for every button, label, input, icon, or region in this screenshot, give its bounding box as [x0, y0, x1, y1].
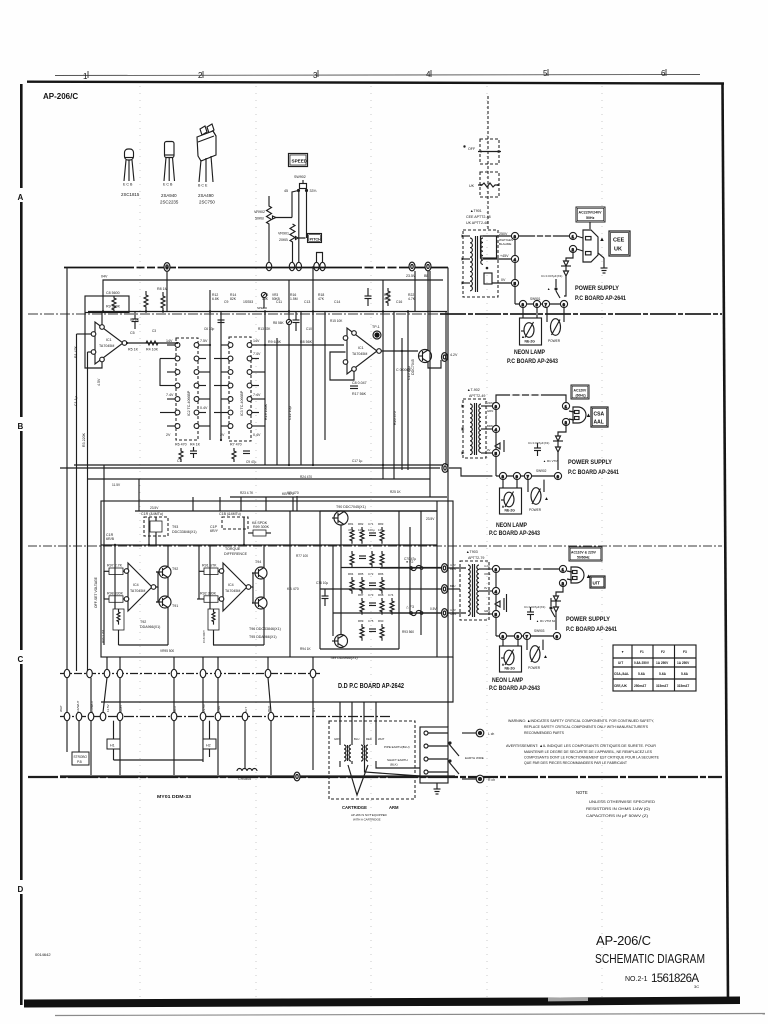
- scattered small value labels: [112, 297, 547, 653]
- connector row 1 line: [60, 673, 320, 675]
- svg-text:R8 56K: R8 56K: [300, 340, 313, 344]
- svg-text:VR901: VR901: [278, 232, 289, 236]
- svg-text:T92: T92: [140, 620, 146, 624]
- svg-text:C18 6R/Y: C18 6R/Y: [202, 630, 206, 643]
- svg-text:CARTRIDGE: CARTRIDGE: [342, 805, 367, 810]
- resistor column block bottom: [360, 624, 384, 641]
- grid row divider B-C: [28, 545, 722, 547]
- svg-text:IC1: IC1: [358, 346, 364, 350]
- svg-text:5: 5: [495, 452, 497, 456]
- grid column dashed line 5-6: [601, 86, 603, 998]
- svg-text:R7 470: R7 470: [230, 443, 242, 447]
- svg-text:04V: 04V: [101, 275, 108, 279]
- svg-text:POWER: POWER: [529, 508, 542, 512]
- PS1 pin 3: [511, 232, 518, 239]
- avertissement text block: [506, 743, 659, 765]
- svg-text:7.4V: 7.4V: [253, 393, 261, 397]
- svg-text:UK: UK: [614, 247, 622, 253]
- resistor column block lower2: [360, 598, 394, 615]
- svg-text:R15 10K: R15 10K: [330, 319, 343, 323]
- svg-text:C8 0.047: C8 0.047: [352, 381, 367, 385]
- svg-text:SPEED: SPEED: [292, 159, 308, 164]
- svg-text:9: 9: [536, 303, 538, 307]
- svg-text:REPLACE SAFETY CRITICAL COMPON: REPLACE SAFETY CRITICAL COMPONENTS ONLY …: [524, 724, 648, 729]
- offset network box L: [113, 609, 124, 630]
- PS3 switch sym: [550, 598, 555, 617]
- upper board lower rail 1: [74, 464, 447, 466]
- svg-text:1SS53: 1SS53: [243, 300, 253, 304]
- svg-text:R1 VTM 62: R1 VTM 62: [540, 619, 556, 623]
- svg-text:7: 7: [527, 475, 529, 479]
- wire IC1 feedback top: [101, 313, 103, 325]
- svg-text:B: B: [18, 422, 24, 431]
- svg-text:10K: 10K: [358, 528, 363, 532]
- svg-text:100µ: 100µ: [368, 528, 375, 532]
- motor bus: [60, 775, 455, 777]
- svg-text:CSA,/AAL: CSA,/AAL: [614, 672, 629, 676]
- svg-text:RED: RED: [366, 737, 372, 741]
- wire left drop 3: [87, 352, 89, 671]
- svg-text:C3: C3: [152, 329, 156, 333]
- transistor T90 top: [332, 511, 348, 525]
- input resistor R2b: [197, 596, 219, 603]
- svg-text:1: 1: [572, 235, 574, 239]
- PS3 pin 9: [514, 632, 521, 639]
- svg-text:(BLK): (BLK): [390, 763, 398, 767]
- svg-text:R24 470: R24 470: [300, 475, 312, 479]
- wire IC1 feedback bottom: [85, 313, 102, 368]
- grid column dashed line 4-5: [486, 86, 488, 998]
- svg-text:0.4V: 0.4V: [200, 406, 208, 410]
- PS1 pin 2: [569, 245, 576, 252]
- resistor column block top: [350, 527, 384, 544]
- svg-text:CSA: CSA: [594, 412, 605, 418]
- PS2 bottom pin rail: [495, 457, 497, 476]
- svg-text:AP-206 IS NOT EQUIPPED: AP-206 IS NOT EQUIPPED: [351, 813, 387, 817]
- PS3 pin 5: [492, 610, 499, 617]
- svg-text:D: D: [18, 885, 24, 894]
- op-amp IC1: [91, 322, 127, 364]
- svg-text:WARNING: ▲INDICATES SAFETY CRI: WARNING: ▲INDICATES SAFETY CRITICAL COMP…: [508, 718, 654, 723]
- svg-text:NO.2-1: NO.2-1: [625, 976, 648, 983]
- PS2 pin 9: [513, 472, 520, 479]
- transistor T95: [252, 597, 267, 609]
- input resistor R2a: [199, 568, 219, 575]
- neon lamp unit 1: [520, 308, 542, 345]
- svg-text:NE-2G: NE-2G: [505, 667, 516, 671]
- svg-text:R2 1K: R2 1K: [130, 318, 140, 322]
- wire VR902 wiper to switch: [292, 191, 299, 218]
- PS2 pin 7: [524, 472, 531, 479]
- PS1 pin 8: [519, 300, 526, 307]
- PS2 pin 3: [492, 402, 499, 409]
- PS2 pin 1: [562, 402, 569, 409]
- upper board mid bus: [88, 311, 447, 313]
- svg-text:▲: ▲: [547, 287, 550, 291]
- SPEED switch label box: [289, 154, 308, 167]
- svg-text:R99 300K: R99 300K: [253, 525, 270, 529]
- transformer T902: [462, 399, 493, 458]
- svg-text:6: 6: [556, 635, 558, 639]
- svg-text:3C: 3C: [694, 984, 699, 989]
- wire left edge drop: [66, 267, 68, 671]
- PS3 pin 2: [559, 579, 566, 586]
- PS1 pin 9: [533, 300, 540, 307]
- svg-text:P.C BOARD AP-2641: P.C BOARD AP-2641: [575, 296, 627, 302]
- connector row1 pins: [64, 669, 316, 677]
- svg-text:250V: 250V: [499, 232, 508, 236]
- svg-text:4.5V: 4.5V: [97, 378, 101, 386]
- svg-text:2V: 2V: [220, 433, 225, 437]
- PS1 pin 7: [542, 300, 549, 307]
- sample-hold dashed box L: [144, 517, 168, 536]
- svg-text:R9 390K: R9 390K: [106, 305, 121, 309]
- PS3 pin 3: [492, 565, 499, 572]
- svg-text:(60Hz): (60Hz): [576, 394, 586, 398]
- svg-text:7.4V: 7.4V: [253, 352, 261, 356]
- svg-text:P.C BOARD AP-2641: P.C BOARD AP-2641: [568, 470, 620, 476]
- svg-text:DDC33846(X1): DDC33846(X1): [172, 530, 197, 534]
- speed selector switch: [298, 180, 308, 192]
- svg-text:3: 3: [313, 71, 318, 80]
- svg-text:C71: C71: [368, 522, 374, 526]
- svg-text:TP-1: TP-1: [372, 325, 380, 329]
- border frame bottom bar: [24, 997, 740, 1008]
- svg-text:R3 220K: R3 220K: [82, 432, 86, 447]
- svg-text:R94 1K: R94 1K: [300, 647, 312, 651]
- svg-text:5: 5: [543, 69, 548, 78]
- svg-text:5: 5: [514, 282, 516, 286]
- transistor T94: [252, 567, 267, 579]
- wire pin3 to pin1: [519, 235, 569, 237]
- svg-text:T93: T93: [172, 525, 178, 529]
- PS1 pin 1: [569, 232, 576, 239]
- svg-text:20KB: 20KB: [279, 238, 288, 242]
- svg-text:C9 47µ: C9 47µ: [246, 460, 257, 464]
- svg-text:82K: 82K: [230, 297, 237, 301]
- DD edge pin b: [442, 585, 448, 594]
- svg-text:▲T901: ▲T901: [470, 209, 482, 213]
- svg-text:9: 9: [516, 475, 518, 479]
- svg-text:KB 470: KB 470: [287, 587, 299, 591]
- svg-text:APTT2-79: APTT2-79: [468, 556, 484, 560]
- svg-text:47K: 47K: [318, 297, 325, 301]
- svg-text:C13: C13: [304, 300, 310, 304]
- svg-text:KB 470: KB 470: [287, 491, 299, 495]
- connector row2 pins: [64, 712, 274, 720]
- svg-text:R25 1K: R25 1K: [390, 490, 402, 494]
- svg-text:C70 47µ: C70 47µ: [404, 557, 416, 561]
- svg-text:P.C BOARD AP-2643: P.C BOARD AP-2643: [489, 686, 541, 692]
- svg-text:CEE APTT2-48: CEE APTT2-48: [466, 215, 491, 219]
- PS2 diode network: [553, 426, 566, 470]
- svg-text:C1 0.047µF(X1): C1 0.047µF(X1): [541, 274, 562, 278]
- transistor package 2SA490/2SC750: [197, 124, 216, 182]
- svg-text:1: 1: [562, 568, 564, 572]
- svg-text:IC1: IC1: [106, 338, 112, 342]
- cartridge wire labels: [334, 737, 385, 741]
- wire input2 to IC1: [88, 351, 92, 353]
- svg-text:6.8K: 6.8K: [212, 297, 220, 301]
- svg-text:50/60Hz: 50/60Hz: [577, 556, 590, 560]
- svg-text:6: 6: [563, 303, 565, 307]
- PS2 pin 5: [492, 449, 499, 456]
- fuse table: [613, 645, 696, 691]
- svg-text:0.5V: 0.5V: [430, 607, 437, 611]
- svg-text:AAL: AAL: [594, 420, 604, 426]
- svg-text:POWER SUPPLY: POWER SUPPLY: [568, 459, 613, 466]
- AC220V/240V label box: [576, 207, 605, 222]
- op-amp IC4 R: [219, 563, 251, 611]
- trimmer VR3 speed: [261, 292, 266, 308]
- PS1 diode network: [561, 253, 573, 296]
- svg-text:E C B: E C B: [123, 183, 133, 187]
- svg-text:2SA940: 2SA940: [161, 193, 177, 198]
- svg-text:23.5V: 23.5V: [426, 517, 435, 521]
- junction dots DD bus: [114, 544, 116, 546]
- svg-text:BLU: BLU: [354, 737, 359, 741]
- trimmer R8: [286, 319, 291, 324]
- transformer T901: [462, 230, 512, 297]
- svg-text:C6 33p: C6 33p: [204, 327, 215, 331]
- PS1 pin 6: [560, 300, 567, 307]
- svg-text:R93 560: R93 560: [402, 630, 414, 634]
- bus junction pin 1: [164, 263, 170, 272]
- border frame top tick line: [55, 75, 700, 76]
- resistor column block mid: [350, 551, 384, 568]
- svg-text:ARM: ARM: [389, 805, 399, 810]
- cartridge dashed box: [329, 721, 415, 799]
- wires opamp L to transistors: [156, 545, 168, 645]
- bus dash gaps: [134, 266, 178, 269]
- voltage selector box UK: [478, 172, 499, 197]
- svg-text:C72: C72: [368, 572, 374, 576]
- svg-text:CEE,/UK: CEE,/UK: [614, 684, 628, 688]
- svg-text:IC2 TC-4066BP: IC2 TC-4066BP: [187, 390, 191, 416]
- DD edge pin c: [442, 609, 448, 618]
- PS3 pin 7: [523, 632, 530, 639]
- svg-text:C17 1µ: C17 1µ: [352, 459, 363, 463]
- arm terminals: [424, 731, 448, 774]
- svg-text:MAINTENIR LE DEGRE DE SECURITE: MAINTENIR LE DEGRE DE SECURITE DE L'APPA…: [524, 749, 652, 754]
- DD board outline: [101, 501, 453, 657]
- L ch pin: [462, 729, 484, 737]
- wire pin to PS2 rail: [449, 468, 492, 476]
- resistor ladder x146: [144, 291, 148, 312]
- transistor T92 L: [156, 566, 171, 578]
- left verticals DD: [104, 517, 168, 645]
- wire box to plug: [589, 222, 591, 229]
- svg-text:2SC1815: 2SC1815: [121, 192, 140, 197]
- wire TR1 emitter to pin: [428, 360, 441, 368]
- svg-text:WHT: WHT: [59, 705, 63, 712]
- svg-text:PIPE EARTH(BLU): PIPE EARTH(BLU): [384, 745, 410, 749]
- svg-text:33⅓: 33⅓: [310, 189, 317, 193]
- svg-text:P.C BOARD AP-2643: P.C BOARD AP-2643: [507, 359, 559, 365]
- svg-text:R77 100: R77 100: [296, 554, 308, 558]
- wires row2 down: [67, 721, 271, 775]
- svg-text:SCHEMATIC DIAGRAM: SCHEMATIC DIAGRAM: [595, 952, 705, 966]
- svg-text:TORQUE: TORQUE: [225, 547, 241, 551]
- svg-text:1A 250V: 1A 250V: [656, 661, 669, 665]
- svg-text:EARTH WIRE: EARTH WIRE: [465, 756, 484, 760]
- svg-text:4.2V: 4.2V: [450, 353, 458, 357]
- right column verticals: [383, 271, 446, 497]
- svg-text:SW902: SW902: [294, 175, 306, 179]
- svg-text:5-6A: 5-6A: [681, 672, 689, 676]
- IC2 dashed box: [175, 338, 199, 440]
- svg-text:+45V: +45V: [500, 254, 509, 258]
- svg-text:2SC2235: 2SC2235: [160, 200, 179, 205]
- op-amp IC2b right: [343, 328, 381, 374]
- DD board inner top rail: [135, 510, 437, 512]
- wire switch 33 contact down to pitch wiper: [306, 191, 308, 239]
- svg-text:STROBO: STROBO: [74, 755, 88, 759]
- transistor package 2SC1815: [124, 149, 134, 181]
- svg-text:45: 45: [284, 189, 288, 193]
- upper board lower rail 2: [88, 478, 430, 480]
- power switch SW2: [528, 480, 544, 505]
- PS1 bottom pin rail: [515, 303, 564, 305]
- PS3 pin 8: [499, 632, 506, 639]
- svg-text:RECOMMENDED PARTS: RECOMMENDED PARTS: [524, 730, 564, 735]
- svg-text:6R/Y: 6R/Y: [210, 529, 219, 533]
- input resistor R98: [104, 596, 124, 603]
- svg-text:R84: R84: [348, 572, 354, 576]
- svg-text:14V: 14V: [166, 339, 173, 343]
- svg-text:U/T: U/T: [618, 661, 623, 665]
- svg-text:NEON LAMP: NEON LAMP: [492, 677, 523, 684]
- hall element H2: [203, 739, 216, 757]
- PS1 pin bus vertical: [514, 240, 516, 304]
- mains plug CEE: [577, 230, 598, 262]
- wire bus junction drop: [166, 271, 168, 311]
- connector row 2 line: [60, 716, 390, 718]
- DD edge pin a: [442, 564, 448, 573]
- PS3 diode network: [551, 587, 563, 630]
- bottom thin line: [55, 1014, 765, 1016]
- svg-text:11.5V: 11.5V: [112, 483, 121, 487]
- svg-text:P.C BOARD AP-2643: P.C BOARD AP-2643: [489, 531, 541, 537]
- tiny labels top block: [348, 522, 384, 532]
- strobo box: [72, 752, 89, 765]
- svg-text:POWER: POWER: [548, 339, 561, 343]
- svg-text:2: 2: [562, 582, 564, 586]
- border frame right line: [723, 83, 729, 1001]
- DD output verticals: [290, 501, 437, 657]
- motor bus pin: [294, 772, 300, 781]
- wires opamp R to transistors: [213, 545, 264, 645]
- svg-text:TA7045M: TA7045M: [225, 589, 240, 593]
- svg-text:AC120V: AC120V: [574, 389, 588, 393]
- wire TR1 collector up: [427, 271, 429, 350]
- power switch SW901: [547, 308, 564, 336]
- svg-text:7: 7: [526, 635, 528, 639]
- svg-text:C: C: [18, 655, 24, 664]
- svg-text:GRN: GRN: [334, 737, 340, 741]
- border frame top line: [27, 82, 724, 84]
- svg-text:▲T-902: ▲T-902: [467, 388, 480, 392]
- svg-text:2SC750: 2SC750: [199, 200, 215, 205]
- svg-text:SW901: SW901: [530, 297, 541, 301]
- PS2 pin bus vertical: [495, 410, 497, 453]
- svg-text:T94: T94: [255, 560, 261, 564]
- svg-text:DDA966(X1): DDA966(X1): [140, 625, 160, 629]
- svg-text:2: 2: [198, 71, 203, 80]
- svg-text:R85: R85: [358, 572, 364, 576]
- bus pin 24: [425, 262, 431, 271]
- bus pin sw45: [296, 262, 301, 270]
- svg-text:DDC7045: DDC7045: [411, 359, 415, 375]
- svg-text:11.5V: 11.5V: [106, 704, 110, 712]
- DD board right edge extension: [101, 657, 453, 702]
- svg-text:C16: C16: [396, 300, 402, 304]
- svg-text:NE-2G: NE-2G: [525, 340, 536, 344]
- svg-text:NEON LAMP: NEON LAMP: [514, 349, 545, 356]
- bottom bar light gap: [548, 997, 588, 1001]
- hall element H1: [107, 739, 203, 760]
- PITCH label box: [308, 234, 322, 243]
- svg-text:R ch: R ch: [488, 778, 495, 782]
- svg-text:2: 2: [572, 248, 574, 252]
- mains plug UT: [567, 567, 584, 583]
- svg-text:▲: ▲: [544, 496, 549, 502]
- mains plug CSA: [569, 407, 586, 423]
- svg-text:T95 DDA966(X1): T95 DDA966(X1): [249, 635, 277, 639]
- earth switch slashes: [449, 742, 459, 774]
- grid letter B: [20, 417, 24, 431]
- svg-text:OFF: OFF: [468, 147, 476, 151]
- svg-text:IC4: IC4: [228, 583, 234, 587]
- svg-text:CAPACITORS IN µF 50WV (Z): CAPACITORS IN µF 50WV (Z): [586, 814, 649, 818]
- transistor package 2SA940/2SC2235: [164, 142, 175, 182]
- wire input to IC1: [77, 333, 92, 335]
- svg-text:RESISTORS IN OHMS 1/4W (Ω): RESISTORS IN OHMS 1/4W (Ω): [586, 807, 651, 811]
- svg-text:▲: ▲: [543, 654, 548, 660]
- PS2 pin 4: [492, 425, 499, 432]
- svg-text:R90: R90: [378, 619, 384, 623]
- svg-text:E C B: E C B: [163, 183, 173, 187]
- cartridge wires top: [340, 702, 376, 745]
- svg-text:R4 10K: R4 10K: [146, 348, 159, 352]
- cartridge coils: [344, 745, 368, 761]
- svg-text:50KB: 50KB: [255, 217, 264, 221]
- svg-text:C74: C74: [388, 593, 394, 597]
- svg-text:F2: F2: [661, 650, 665, 654]
- grid letter D: [20, 880, 24, 894]
- svg-text:▲T903: ▲T903: [466, 550, 478, 554]
- wires row1 to row2: [67, 678, 313, 770]
- PS2 pin 8: [499, 472, 506, 479]
- stylus: [348, 765, 368, 795]
- svg-text:WITH A CARTRIDGE: WITH A CARTRIDGE: [353, 818, 381, 822]
- svg-text:P.C BOARD AP-2641: P.C BOARD AP-2641: [566, 627, 618, 633]
- CSA AAL label box: [591, 407, 608, 427]
- grid row divider A-B: [28, 313, 440, 315]
- stub wires board to row1: [107, 657, 313, 669]
- svg-text:6R/B: 6R/B: [106, 537, 115, 541]
- feedback under op-amp: [330, 352, 354, 380]
- svg-text:MY01 DDM-33: MY01 DDM-33: [157, 794, 192, 799]
- svg-text:C9: C9: [224, 300, 228, 304]
- transistor T89 bottom: [332, 635, 348, 648]
- rotated wire color labels: [59, 700, 316, 714]
- PS3 pin 1: [559, 565, 566, 572]
- svg-text:0.4V: 0.4V: [253, 433, 261, 437]
- sample-hold dashed box R: [222, 517, 248, 529]
- DD output horizontals: [320, 511, 441, 649]
- tiny labels above mid bus: [212, 293, 416, 304]
